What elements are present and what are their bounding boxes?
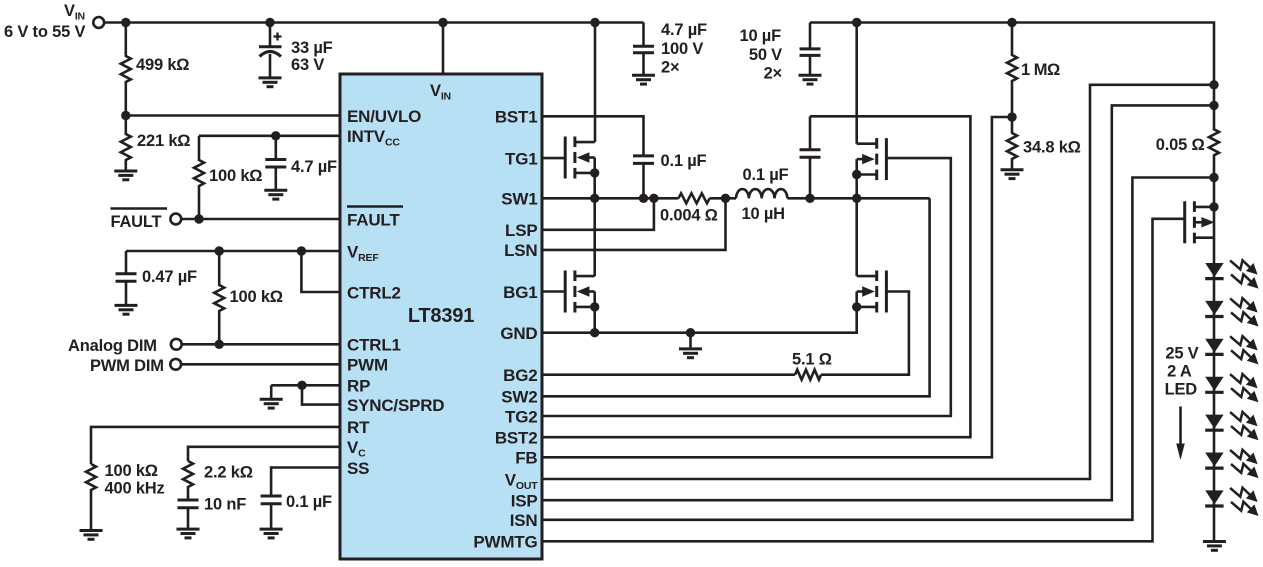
LED D5	[1205, 415, 1223, 431]
ground R2	[114, 171, 137, 180]
wire M4 drain	[855, 198, 858, 276]
terminal FAULT	[170, 214, 340, 225]
node ISN tap	[1209, 173, 1218, 182]
svg-text:63 V: 63 V	[291, 56, 324, 74]
wire M1 source	[593, 173, 596, 198]
label 499k	[136, 56, 189, 74]
LED D1	[1205, 263, 1223, 279]
svg-text:BG1: BG1	[503, 283, 537, 302]
label Analog DIM	[68, 337, 157, 355]
node M5 drain	[1209, 202, 1218, 211]
wire L1-SW2	[787, 197, 929, 200]
svg-text:SW2: SW2	[501, 388, 537, 407]
svg-text:0.004 Ω: 0.004 Ω	[660, 207, 718, 225]
node VIN-M1	[590, 18, 599, 27]
svg-text:0.1 µF: 0.1 µF	[661, 152, 707, 170]
node FB	[1007, 112, 1016, 121]
inductor L1 10uH	[736, 189, 787, 198]
wire BG2	[542, 373, 795, 376]
svg-text:Analog DIM: Analog DIM	[68, 337, 157, 355]
svg-text:2.2 kΩ: 2.2 kΩ	[204, 464, 253, 482]
label 0.1uF BST1	[661, 152, 707, 170]
svg-text:2×: 2×	[764, 65, 782, 83]
capacitor C1 33uF polarized	[259, 23, 282, 78]
label 0.1uF BST2	[743, 166, 789, 184]
ground C5	[260, 529, 283, 538]
label 10nF	[204, 496, 246, 514]
node GND-sym	[686, 328, 695, 337]
wire TG2	[542, 158, 951, 416]
wire RP	[271, 384, 340, 387]
wire M5 source	[1213, 238, 1216, 263]
op-amp U1 LT8391 body	[340, 74, 542, 559]
svg-text:0.1 µF: 0.1 µF	[286, 493, 332, 511]
svg-text:221 kΩ: 221 kΩ	[137, 132, 190, 150]
label U1 VIN pin	[430, 82, 451, 103]
node INTVCC-C2	[271, 131, 280, 140]
wire SS	[271, 468, 340, 497]
svg-text:10 µH: 10 µH	[742, 205, 785, 223]
svg-text:ISP: ISP	[511, 492, 538, 511]
node LSN-R7	[721, 194, 730, 203]
capacitor C4 10nF	[178, 500, 199, 529]
capacitor C5 0.1uF SS	[261, 496, 282, 529]
label 0.47uF	[142, 268, 197, 286]
transistor M1 buck high-side	[565, 137, 599, 179]
svg-text:0.47 µF: 0.47 µF	[142, 268, 197, 286]
wire M3 drain	[855, 23, 858, 144]
ground C9	[632, 75, 655, 84]
svg-text:CTRL2: CTRL2	[347, 283, 401, 302]
wire SYNC/SPRD	[302, 385, 340, 404]
ground C4	[177, 529, 200, 538]
svg-text:34.8 kΩ: 34.8 kΩ	[1023, 139, 1081, 157]
node VIN-R1	[121, 18, 130, 27]
node FAULT-R3	[194, 214, 203, 223]
label U1 right pin names	[473, 108, 538, 552]
node VREF-R4	[215, 246, 224, 255]
wire BG1	[542, 290, 565, 293]
svg-text:BST2: BST2	[495, 429, 538, 448]
ground R5	[80, 531, 103, 540]
svg-text:6 V to 55 V: 6 V to 55 V	[4, 23, 85, 41]
node SW1-C6	[639, 194, 648, 203]
wire FB	[542, 117, 1012, 457]
label 221k	[137, 132, 190, 150]
svg-text:0.1 µF: 0.1 µF	[743, 166, 789, 184]
svg-text:RT: RT	[347, 418, 370, 437]
resistor R10 1M	[1007, 23, 1017, 118]
svg-text:BST1: BST1	[495, 108, 538, 127]
LED D6	[1205, 453, 1223, 469]
svg-text:LED: LED	[1165, 381, 1198, 399]
svg-text:GND: GND	[500, 324, 537, 343]
LED D5 light arrows	[1230, 412, 1258, 440]
terminal VIN input	[93, 17, 123, 28]
svg-text:PWM DIM: PWM DIM	[90, 357, 164, 375]
LED D1 light arrows	[1230, 260, 1258, 288]
wire TG1	[542, 157, 565, 160]
LED D3	[1205, 339, 1223, 355]
label 5.1	[792, 351, 832, 369]
node RP-SYNC	[297, 381, 306, 390]
svg-text:LSP: LSP	[505, 221, 537, 240]
wire BG2 gate	[821, 292, 909, 375]
label 0.004	[660, 207, 718, 225]
wire BST1	[542, 116, 644, 156]
svg-text:LT8391: LT8391	[408, 305, 474, 327]
label 10uH	[742, 205, 785, 223]
svg-text:33 µF: 33 µF	[291, 39, 333, 57]
label 1M	[1021, 61, 1060, 79]
label U1 name	[408, 305, 474, 327]
wire VOUT rail	[810, 23, 1214, 85]
wire INTVCC	[199, 135, 340, 138]
svg-text:BG2: BG2	[503, 366, 537, 385]
node EN/UVLO divider	[121, 111, 130, 120]
wire R7-L1	[710, 197, 736, 200]
resistor R9 0.05 sense	[1209, 105, 1219, 177]
wire rail seg1	[1213, 85, 1216, 106]
wire VOUT	[542, 85, 1214, 479]
node VIN-C33u	[265, 18, 274, 27]
wire M2 source	[593, 307, 596, 333]
svg-text:4.7 µF: 4.7 µF	[661, 21, 707, 39]
label 2.2k	[204, 464, 253, 482]
LED D4 light arrows	[1230, 374, 1258, 402]
LED D2 light arrows	[1230, 298, 1258, 326]
wire PWMTG	[542, 219, 1185, 542]
capacitor C9 4.7uF	[633, 23, 654, 76]
ground C2	[264, 190, 287, 199]
node ISP tap	[1209, 101, 1218, 110]
svg-text:4.7 µF: 4.7 µF	[291, 158, 337, 176]
svg-text:100 kΩ: 100 kΩ	[230, 288, 283, 306]
node VIN-IC	[438, 18, 447, 27]
label 0.1uF SS	[286, 493, 332, 511]
transistor M5 PWM dimming	[1185, 201, 1215, 243]
label 100k pull-up	[209, 167, 262, 185]
capacitor C7 0.1uF BST2	[800, 116, 821, 198]
wire LED string	[1213, 263, 1216, 542]
LED D7 light arrows	[1230, 488, 1258, 516]
svg-text:SYNC/SPRD: SYNC/SPRD	[347, 396, 444, 415]
resistor R5 100k 400kHz	[86, 464, 96, 531]
label 34.8k	[1023, 139, 1081, 157]
ground RP	[260, 385, 283, 408]
node SW2-C7	[805, 194, 814, 203]
svg-text:10 nF: 10 nF	[204, 496, 246, 514]
svg-text:400 kHz: 400 kHz	[105, 480, 165, 498]
LED D7	[1205, 490, 1223, 506]
transistor M4 boost switch	[852, 271, 886, 313]
wire VC	[188, 447, 340, 461]
LED D6 light arrows	[1230, 450, 1258, 478]
svg-text:0.05 Ω: 0.05 Ω	[1156, 136, 1205, 154]
node CTRL1-R4	[215, 340, 224, 349]
LED D4	[1205, 377, 1223, 393]
wire SW2 to pin	[542, 198, 930, 396]
resistor R2 221k	[121, 116, 131, 172]
label 33uF	[291, 39, 333, 74]
ground LED string	[1203, 542, 1226, 551]
transistor M3 boost sync	[852, 138, 886, 180]
label 4.7uF INTVCC	[291, 158, 337, 176]
ground GND net	[679, 333, 702, 358]
label FAULT external	[111, 209, 168, 232]
wire ISP	[542, 105, 1214, 500]
svg-text:CTRL1: CTRL1	[347, 336, 401, 355]
wire EN/UVLO	[126, 114, 340, 117]
label LED string	[1165, 345, 1199, 399]
resistor R4 100k CTRL	[214, 251, 224, 344]
wire M3 source	[855, 175, 858, 199]
label 100k CTRL	[230, 288, 283, 306]
resistor R7 0.004 sense	[679, 193, 710, 203]
svg-text:2 A: 2 A	[1167, 363, 1192, 381]
label 6V to 55V	[4, 23, 85, 41]
node GND-M2	[590, 328, 599, 337]
wire SW1	[542, 197, 679, 200]
resistor R1 499k	[121, 23, 131, 116]
svg-text:FB: FB	[515, 449, 537, 468]
svg-text:100 kΩ: 100 kΩ	[105, 462, 158, 480]
wire GND	[542, 307, 857, 333]
transistor M2 buck sync	[565, 271, 599, 313]
label 100k 400kHz	[105, 462, 165, 498]
svg-text:2×: 2×	[661, 59, 679, 77]
resistor R8 5.1	[795, 370, 821, 380]
ground C1	[259, 78, 282, 87]
label 4.7uF	[661, 21, 707, 77]
svg-text:SS: SS	[347, 459, 369, 478]
svg-text:499 kΩ: 499 kΩ	[136, 56, 189, 74]
capacitor C3 0.47uF	[116, 251, 137, 305]
capacitor C8 10uF	[800, 23, 821, 76]
node VOUT-M3	[852, 18, 861, 27]
label U1 left pin names	[347, 107, 444, 478]
wire LSN	[542, 198, 726, 250]
wire M2 drain	[593, 198, 596, 276]
svg-text:ISN: ISN	[510, 511, 538, 530]
label 0.05	[1156, 136, 1205, 154]
label 10uF	[739, 27, 782, 83]
ground R11	[1001, 170, 1024, 179]
wire BST2	[542, 116, 970, 437]
node VOUT-R10	[1007, 18, 1016, 27]
LED D3 light arrows	[1230, 336, 1258, 364]
svg-text:PWM: PWM	[347, 356, 388, 375]
svg-text:TG1: TG1	[505, 149, 537, 168]
terminal PWM DIM	[170, 359, 340, 370]
capacitor C2 4.7uF	[265, 136, 286, 191]
svg-text:EN/UVLO: EN/UVLO	[347, 107, 421, 126]
svg-text:LSN: LSN	[504, 241, 537, 260]
LED D2	[1205, 301, 1223, 317]
ground C8	[799, 75, 822, 84]
wire R9-M5	[1213, 178, 1216, 207]
resistor R6 2.2k	[183, 461, 193, 500]
svg-text:100 kΩ: 100 kΩ	[209, 167, 262, 185]
label VIN input	[64, 2, 85, 23]
node SW2-M3	[852, 194, 861, 203]
wire LSP	[542, 198, 654, 230]
wire VREF	[126, 250, 340, 253]
resistor R11 34.8k	[1007, 117, 1017, 170]
wire VIN rail top-left	[123, 21, 644, 24]
svg-text:SW1: SW1	[501, 190, 537, 209]
svg-text:25 V: 25 V	[1165, 345, 1198, 363]
terminal Analog DIM	[171, 339, 340, 350]
wire CTRL2	[301, 251, 340, 292]
node SW1-M1	[590, 194, 599, 203]
wire VIN pin stub	[442, 23, 445, 75]
svg-text:10 µF: 10 µF	[739, 27, 781, 45]
node VREF-CTRL2	[297, 246, 306, 255]
label PWM DIM	[90, 357, 164, 375]
node VOUT tap	[1209, 80, 1218, 89]
wire RT	[91, 427, 340, 464]
svg-text:100 V: 100 V	[661, 40, 703, 58]
svg-text:TG2: TG2	[505, 407, 537, 426]
ground C3	[115, 305, 138, 314]
svg-text:1 MΩ: 1 MΩ	[1021, 61, 1060, 79]
svg-text:FAULT: FAULT	[111, 213, 162, 231]
svg-text:RP: RP	[347, 377, 370, 396]
LED current arrow	[1176, 407, 1185, 461]
wire M1 drain	[594, 23, 597, 143]
svg-text:5.1 Ω: 5.1 Ω	[792, 351, 832, 369]
svg-text:FAULT: FAULT	[347, 210, 400, 229]
node SW1-LSP	[649, 194, 658, 203]
capacitor C6 0.1uF BST1	[633, 156, 654, 198]
svg-text:PWMTG: PWMTG	[473, 533, 537, 552]
resistor R3 100k pull-up	[194, 136, 204, 219]
svg-text:50 V: 50 V	[749, 46, 782, 64]
wire ISN	[542, 178, 1214, 520]
